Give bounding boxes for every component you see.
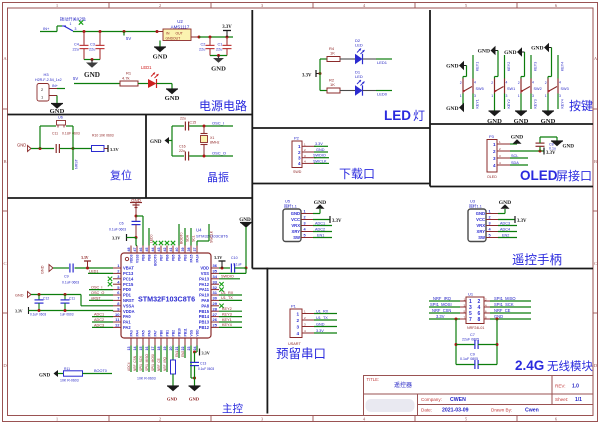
svg-text:37: 37 bbox=[193, 248, 197, 252]
wire P3 pin1 to GND bbox=[510, 143, 517, 145]
svg-text:3.3V: 3.3V bbox=[202, 351, 210, 356]
svg-text:PB15: PB15 bbox=[199, 309, 210, 314]
svg-text:1/1: 1/1 bbox=[575, 397, 582, 403]
wire GND to crystal net bbox=[169, 140, 172, 142]
svg-text:GND: GND bbox=[50, 108, 65, 115]
switch SW3 body bbox=[547, 79, 549, 94]
svg-text:主控: 主控 bbox=[222, 402, 243, 415]
svg-text:nRST: nRST bbox=[91, 296, 101, 300]
svg-text:C11: C11 bbox=[69, 297, 75, 301]
svg-text:GND: GND bbox=[150, 139, 162, 145]
svg-text:U6: U6 bbox=[58, 116, 63, 120]
wire C8 to ground arm bbox=[539, 137, 541, 143]
wire gnd rail to VSSA bbox=[31, 294, 81, 296]
connector U1 body bbox=[466, 297, 484, 324]
svg-text:LED: LED bbox=[355, 74, 363, 79]
svg-text:VCC: VCC bbox=[476, 217, 485, 222]
wire LED1 to ground bbox=[157, 83, 173, 85]
svg-text:灯: 灯 bbox=[413, 109, 425, 123]
svg-text:1: 1 bbox=[489, 210, 491, 214]
svg-text:3.3V: 3.3V bbox=[436, 314, 445, 319]
capacitor C10 0.1uF bbox=[230, 264, 232, 273]
svg-text:1: 1 bbox=[298, 144, 301, 149]
svg-text:SWDIO: SWDIO bbox=[221, 275, 234, 279]
resistor R5 10K vertical bbox=[171, 360, 176, 374]
svg-text:2: 2 bbox=[304, 216, 306, 220]
junction C14 top bbox=[64, 293, 67, 296]
svg-text:SPI1_MOSI: SPI1_MOSI bbox=[151, 354, 155, 371]
junction on LED feed bbox=[319, 72, 322, 75]
wire SW3 top-left bbox=[551, 48, 553, 77]
svg-text:1: 1 bbox=[493, 142, 496, 147]
wire SW5 bottom-right with net KEY1 bbox=[472, 94, 474, 110]
junction at 3.3V stub pin1 row bbox=[86, 267, 89, 270]
svg-text:C: C bbox=[3, 261, 6, 266]
wire SW1 bottom-left to ground arrow bbox=[494, 94, 496, 112]
wire SW2 top-right with net KEY3 bbox=[530, 55, 532, 79]
wire R4 to D2 bbox=[340, 58, 355, 60]
svg-text:3: 3 bbox=[296, 324, 299, 329]
svg-text:25: 25 bbox=[213, 323, 218, 328]
wire 2.4G right vertical rail bbox=[496, 319, 498, 365]
svg-text:PB7: PB7 bbox=[160, 254, 164, 261]
svg-text:EN1: EN1 bbox=[175, 351, 179, 357]
svg-text:SPI1_SCK: SPI1_SCK bbox=[139, 355, 143, 371]
svg-text:43: 43 bbox=[157, 248, 161, 252]
junction at C2/C1 gnd rail bbox=[217, 54, 220, 57]
svg-text:PB2: PB2 bbox=[172, 330, 176, 337]
wire regulator output to 3.3V caps bbox=[199, 36, 233, 38]
svg-text:3: 3 bbox=[298, 156, 301, 161]
svg-text:2: 2 bbox=[545, 81, 547, 85]
reset/crystal bottom border bbox=[8, 197, 253, 199]
svg-text:PD1: PD1 bbox=[123, 293, 132, 298]
svg-text:OLED: OLED bbox=[520, 168, 558, 183]
svg-text:4: 4 bbox=[493, 163, 496, 168]
svg-text:4.7k: 4.7k bbox=[122, 75, 130, 80]
svg-text:2: 2 bbox=[493, 149, 496, 154]
svg-text:R10 10K 0603: R10 10K 0603 bbox=[92, 134, 114, 138]
svg-text:KEY3: KEY3 bbox=[533, 62, 537, 71]
net label BOOT0 vertical at pin40 bbox=[178, 224, 180, 246]
svg-text:3.3V: 3.3V bbox=[315, 142, 323, 146]
svg-text:VDD: VDD bbox=[196, 329, 200, 337]
svg-text:IN+: IN+ bbox=[52, 84, 59, 88]
wire C4-C3 ground rail bbox=[84, 59, 100, 61]
svg-text:GND: GND bbox=[291, 211, 300, 216]
block divider vertical x=267 lower bbox=[266, 268, 268, 414]
junction 3.3V/C6 node bbox=[135, 236, 138, 239]
svg-text:2: 2 bbox=[298, 150, 301, 155]
svg-text:22u: 22u bbox=[199, 48, 205, 52]
svg-text:C12: C12 bbox=[43, 297, 49, 301]
svg-text:40: 40 bbox=[175, 248, 179, 252]
svg-text:BOOT0: BOOT0 bbox=[94, 369, 107, 373]
junction at C1 / 3.3V stub bbox=[226, 36, 229, 39]
wire R10 to 3.3V bbox=[104, 148, 108, 150]
svg-text:PB10: PB10 bbox=[178, 328, 182, 336]
svg-text:0.1uF 0603: 0.1uF 0603 bbox=[62, 281, 79, 285]
svg-text:晶振: 晶振 bbox=[207, 170, 229, 184]
svg-text:GND: GND bbox=[314, 200, 326, 206]
svg-text:3.3V: 3.3V bbox=[112, 236, 120, 241]
svg-text:PA12: PA12 bbox=[199, 282, 210, 287]
svg-text:SWCLK: SWCLK bbox=[313, 159, 327, 163]
svg-text:22u: 22u bbox=[73, 48, 79, 52]
svg-text:LED: LED bbox=[384, 108, 411, 123]
svg-text:KEY3: KEY3 bbox=[222, 312, 232, 316]
svg-text:C3: C3 bbox=[90, 43, 95, 47]
svg-text:PB1: PB1 bbox=[166, 330, 170, 337]
svg-text:4: 4 bbox=[298, 161, 301, 166]
joystick U5 pin lines bbox=[301, 213, 313, 215]
svg-text:Date:: Date: bbox=[421, 408, 432, 413]
svg-text:3: 3 bbox=[559, 94, 561, 98]
junction VSS/C13 ground node bbox=[193, 377, 196, 380]
svg-text:3.3V: 3.3V bbox=[81, 256, 89, 260]
svg-text:NRF_IRQ: NRF_IRQ bbox=[163, 356, 167, 371]
svg-text:BOOT0: BOOT0 bbox=[180, 232, 184, 244]
svg-text:LED1: LED1 bbox=[377, 60, 388, 65]
svg-text:GND: GND bbox=[211, 66, 226, 73]
wire SW5 top-right with net KEY1 bbox=[472, 55, 474, 79]
joystick U5 body bbox=[283, 209, 301, 242]
svg-text:3.3V: 3.3V bbox=[517, 219, 527, 224]
wire P3 pin2 to 3.3V bbox=[510, 150, 544, 152]
capacitor C3 22u bbox=[99, 32, 101, 46]
power port 3.3V bottom bbox=[199, 349, 201, 356]
power port 3.3V reset bbox=[107, 145, 109, 152]
svg-text:SW5: SW5 bbox=[476, 87, 484, 91]
title block table outline bbox=[364, 376, 594, 416]
ground symbol under R5 bbox=[167, 386, 179, 391]
svg-text:GND: GND bbox=[476, 211, 485, 216]
svg-text:摇杆1.1: 摇杆1.1 bbox=[469, 203, 482, 208]
no-connect X at pin32 bbox=[219, 287, 223, 291]
svg-text:GND: GND bbox=[499, 200, 511, 206]
junction at OSC_I / crystal top bbox=[203, 125, 206, 128]
svg-text:GND: GND bbox=[84, 71, 100, 79]
svg-text:LED: LED bbox=[355, 43, 363, 48]
wire gnd to R11 bbox=[58, 373, 64, 375]
svg-text:4: 4 bbox=[296, 331, 299, 336]
ground symbol under C4/C3 bbox=[91, 60, 93, 63]
svg-text:45: 45 bbox=[145, 248, 149, 252]
svg-text:3.3V: 3.3V bbox=[214, 255, 222, 260]
svg-text:PC13: PC13 bbox=[123, 271, 134, 276]
capacitor C6 0.1uF 0603 bbox=[135, 216, 137, 221]
svg-text:PA10: PA10 bbox=[199, 293, 210, 298]
net label SDA vertical at pin38 bbox=[184, 228, 186, 246]
svg-text:AMS1117: AMS1117 bbox=[171, 24, 190, 29]
svg-text:VSS: VSS bbox=[201, 271, 209, 276]
svg-text:41: 41 bbox=[169, 248, 173, 252]
svg-text:ADC1: ADC1 bbox=[315, 221, 325, 225]
title block row line 1 bbox=[364, 393, 594, 395]
wire U3 pin2 to 3.3V bbox=[498, 219, 515, 221]
net label 5V on rail bbox=[123, 32, 125, 36]
connector P2 pin lines bbox=[302, 145, 316, 147]
wire node to R10 bbox=[73, 148, 92, 150]
svg-text:C9: C9 bbox=[64, 275, 69, 279]
svg-text:PB14: PB14 bbox=[199, 314, 210, 319]
joystick U3 pin lines bbox=[486, 213, 498, 215]
title block row line 2 bbox=[418, 404, 594, 406]
svg-text:OSC_I: OSC_I bbox=[212, 121, 224, 126]
junction at C2 bbox=[209, 36, 212, 39]
junction gnd/C6 node bbox=[135, 215, 138, 218]
regulator U2 body bbox=[163, 29, 191, 41]
svg-text:PA4: PA4 bbox=[136, 330, 140, 336]
svg-text:1K: 1K bbox=[330, 82, 335, 87]
wire C16 to OSC_O node bbox=[189, 155, 211, 157]
download-port block bottom border bbox=[252, 183, 430, 185]
svg-text:遥控手柄: 遥控手柄 bbox=[512, 253, 562, 267]
title block logo placeholder bbox=[366, 400, 414, 412]
ground symbol under C2/C1 bbox=[218, 56, 220, 59]
svg-text:5: 5 bbox=[304, 234, 306, 238]
svg-text:GND: GND bbox=[487, 118, 502, 125]
wire R2 to D1 bbox=[340, 90, 355, 92]
svg-text:32: 32 bbox=[213, 285, 218, 290]
svg-text:ADC1: ADC1 bbox=[94, 313, 104, 317]
wire IN+ to switch SW6 bbox=[40, 31, 57, 33]
wire node to mcu pin47 bbox=[136, 215, 143, 217]
power port 3.3V U5 bbox=[329, 216, 331, 223]
svg-text:C7: C7 bbox=[470, 333, 475, 337]
wire D1 to net label bbox=[363, 90, 377, 92]
svg-text:KEY3: KEY3 bbox=[533, 99, 537, 108]
wire gnd down to C10 node bbox=[245, 227, 247, 268]
wire junction up to C8 bbox=[539, 146, 541, 151]
svg-text:C11: C11 bbox=[52, 132, 58, 136]
svg-text:U2: U2 bbox=[177, 19, 183, 24]
svg-text:SDA: SDA bbox=[186, 234, 190, 242]
svg-text:SCL: SCL bbox=[192, 235, 196, 242]
wire U3 pin1 to GND bbox=[498, 213, 505, 215]
wire C9 to mcu pin1 bbox=[75, 267, 113, 269]
svg-text:GND: GND bbox=[39, 374, 51, 379]
junction C12 bottom bbox=[38, 309, 41, 312]
wire SW3 bottom-right with net KEY4 bbox=[557, 94, 559, 110]
svg-text:无线模块: 无线模块 bbox=[547, 359, 593, 373]
connector P2 body bbox=[292, 141, 302, 168]
junction C12 top bbox=[38, 293, 41, 296]
svg-text:3: 3 bbox=[75, 27, 77, 31]
connector P1 pin lines bbox=[302, 313, 314, 315]
block divider reset/crystal x=146 bbox=[145, 115, 147, 199]
svg-text:USART: USART bbox=[288, 342, 301, 346]
capacitor C15 22u bbox=[184, 122, 186, 131]
svg-text:GND: GND bbox=[478, 49, 490, 55]
svg-text:PA7: PA7 bbox=[154, 330, 158, 336]
svg-text:NRST: NRST bbox=[123, 298, 135, 303]
wire SW1 bottom-right with net KEY2 bbox=[504, 94, 506, 110]
svg-text:4: 4 bbox=[506, 81, 508, 85]
svg-text:SW1: SW1 bbox=[507, 87, 515, 91]
svg-text:U5: U5 bbox=[285, 199, 291, 204]
svg-text:PC14: PC14 bbox=[123, 276, 134, 281]
svg-text:NRF_CE: NRF_CE bbox=[494, 308, 511, 313]
svg-text:ADC2: ADC2 bbox=[94, 318, 104, 322]
LED block bottom border bbox=[252, 127, 430, 129]
svg-text:3: 3 bbox=[304, 222, 306, 226]
switch SW5 body bbox=[462, 79, 464, 94]
svg-text:1: 1 bbox=[460, 94, 462, 98]
wire SW2 bottom-left to ground arrow bbox=[520, 94, 522, 112]
svg-text:C1: C1 bbox=[218, 43, 223, 47]
wire C11 to node bbox=[60, 148, 73, 150]
svg-text:SW3: SW3 bbox=[561, 87, 569, 91]
svg-text:BOOT0: BOOT0 bbox=[154, 254, 158, 266]
mcu U4 STM32F103C8T6 body bbox=[121, 253, 211, 338]
wire to R4 bbox=[320, 58, 327, 60]
connector P3 pin lines bbox=[497, 143, 510, 145]
svg-text:VRX: VRX bbox=[476, 223, 485, 228]
svg-text:VDD3: VDD3 bbox=[130, 254, 134, 263]
svg-text:下载口: 下载口 bbox=[339, 167, 375, 181]
svg-text:P2: P2 bbox=[294, 136, 300, 141]
capacitor C16 22u bbox=[184, 152, 186, 161]
svg-text:1: 1 bbox=[70, 22, 72, 26]
capacitor C1 22u bbox=[226, 37, 228, 45]
svg-text:PB11: PB11 bbox=[184, 328, 188, 336]
wire R1 to LED1 bbox=[138, 83, 148, 85]
wire U5 pin1 to GND bbox=[313, 213, 320, 215]
svg-text:U1_RX: U1_RX bbox=[221, 291, 234, 295]
wire LED vertical feed bbox=[319, 59, 321, 91]
svg-text:PB12: PB12 bbox=[199, 325, 210, 330]
svg-text:31: 31 bbox=[213, 290, 218, 295]
svg-text:CWEN: CWEN bbox=[450, 397, 466, 403]
svg-text:22u: 22u bbox=[179, 149, 185, 153]
wire SW2 bottom-right with net KEY3 bbox=[530, 94, 532, 110]
svg-text:3.3V: 3.3V bbox=[222, 25, 232, 30]
power block bottom border bbox=[8, 114, 253, 116]
svg-text:GND: GND bbox=[41, 265, 45, 274]
wire pin20 to R5 pulldown bbox=[172, 346, 174, 361]
ground symbol up-arrow U3 bbox=[501, 204, 510, 209]
svg-text:GND: GND bbox=[17, 143, 26, 148]
ground symbol after LED1 bbox=[166, 89, 178, 94]
svg-text:OLED: OLED bbox=[487, 175, 497, 179]
svg-text:3: 3 bbox=[489, 222, 491, 226]
svg-text:C4: C4 bbox=[74, 43, 79, 47]
svg-text:GND: GND bbox=[165, 95, 180, 102]
svg-text:22u: 22u bbox=[89, 48, 95, 52]
net label LED0 vertical at pin45 bbox=[148, 228, 150, 246]
crystal X1 8MHz bbox=[203, 126, 205, 133]
svg-text:EN2: EN2 bbox=[181, 351, 185, 357]
junction at regulator output bbox=[198, 36, 201, 39]
svg-text:SW2: SW2 bbox=[534, 87, 542, 91]
svg-text:KEY1: KEY1 bbox=[475, 99, 479, 108]
svg-text:28: 28 bbox=[213, 306, 218, 311]
svg-text:ADC2: ADC2 bbox=[315, 227, 325, 231]
svg-text:GND: GND bbox=[15, 293, 24, 297]
wire switch to regulator input bbox=[73, 31, 157, 33]
svg-text:C10: C10 bbox=[231, 256, 238, 260]
svg-text:ADC4: ADC4 bbox=[500, 227, 510, 231]
wire top branch to C15 bbox=[172, 125, 184, 127]
svg-text:GND: GND bbox=[167, 397, 178, 402]
block divider vertical x=430 bbox=[429, 10, 431, 187]
svg-text:SWD: SWD bbox=[293, 170, 302, 174]
ground symbol under regulator bbox=[154, 47, 166, 52]
svg-text:0.1uF: 0.1uF bbox=[233, 262, 242, 266]
svg-text:VCC: VCC bbox=[291, 217, 300, 222]
no-connect X on switch pin 2 bbox=[79, 20, 83, 24]
svg-text:VSS3: VSS3 bbox=[136, 254, 140, 263]
svg-text:39: 39 bbox=[181, 248, 185, 252]
svg-text:U1_TX: U1_TX bbox=[221, 296, 233, 300]
header H3 pin 2 line bbox=[49, 88, 57, 90]
svg-text:2.4G: 2.4G bbox=[515, 358, 544, 373]
svg-text:复位: 复位 bbox=[110, 168, 132, 182]
regulator output pin line bbox=[191, 36, 199, 38]
svg-text:1K: 1K bbox=[330, 51, 335, 56]
svg-text:电源电路: 电源电路 bbox=[199, 98, 247, 113]
wire C15 to OSC_I node bbox=[189, 125, 211, 127]
svg-text:Company:: Company: bbox=[421, 397, 442, 402]
svg-text:VRX: VRX bbox=[291, 223, 300, 228]
svg-text:摇杆1.1: 摇杆1.1 bbox=[284, 203, 297, 208]
capacitor C12 0.1uF 0603 bbox=[38, 295, 40, 300]
power port 3.3V output bbox=[226, 31, 228, 37]
svg-text:GND: GND bbox=[531, 46, 543, 52]
svg-text:SW: SW bbox=[293, 235, 300, 240]
svg-text:NRF_IRQ: NRF_IRQ bbox=[433, 296, 451, 301]
svg-text:LED0: LED0 bbox=[377, 91, 388, 96]
svg-text:3: 3 bbox=[474, 94, 476, 98]
no-connect X at pin3 bbox=[108, 277, 112, 281]
mcu bottom pin lines and numbers bbox=[130, 338, 132, 346]
svg-text:0.1uF 0603: 0.1uF 0603 bbox=[109, 228, 126, 232]
svg-text:VDD: VDD bbox=[200, 266, 209, 271]
svg-text:OSC_O: OSC_O bbox=[212, 151, 226, 156]
svg-text:5V: 5V bbox=[73, 76, 78, 81]
svg-text:H3: H3 bbox=[43, 72, 49, 77]
svg-text:GND: GND bbox=[316, 148, 325, 152]
svg-text:PA1: PA1 bbox=[123, 320, 131, 325]
wires mcu bottom nets vertical bbox=[130, 346, 132, 373]
svg-text:PB6: PB6 bbox=[166, 254, 170, 261]
net label SCL vertical at pin37u bbox=[190, 228, 192, 246]
wire U5 pin2 to 3.3V bbox=[313, 219, 330, 221]
svg-text:PA13: PA13 bbox=[199, 276, 210, 281]
svg-text:PA11: PA11 bbox=[199, 287, 209, 292]
svg-text:NRF_CSN: NRF_CSN bbox=[432, 308, 451, 313]
svg-text:GND: GND bbox=[514, 118, 529, 125]
wire SW5 top-left bbox=[466, 66, 468, 77]
svg-text:U3: U3 bbox=[470, 199, 476, 204]
svg-text:1: 1 bbox=[304, 210, 306, 214]
svg-text:GND: GND bbox=[504, 50, 516, 56]
svg-text:PA0: PA0 bbox=[123, 314, 131, 319]
junction right rail at C7 bbox=[496, 343, 499, 346]
svg-text:VSSA: VSSA bbox=[123, 303, 134, 308]
svg-text:PB8: PB8 bbox=[148, 254, 152, 261]
svg-text:12: 12 bbox=[115, 323, 120, 328]
svg-text:U1: U1 bbox=[468, 292, 474, 297]
svg-text:U4: U4 bbox=[196, 228, 202, 233]
svg-text:1: 1 bbox=[296, 311, 299, 316]
junction at C10 right bbox=[245, 267, 248, 270]
svg-text:NRF_CE: NRF_CE bbox=[157, 358, 161, 371]
wire SW1 top-right with net KEY2 bbox=[504, 55, 506, 79]
svg-text:KEY2: KEY2 bbox=[222, 307, 232, 311]
ground symbol under C13 bbox=[189, 386, 201, 391]
